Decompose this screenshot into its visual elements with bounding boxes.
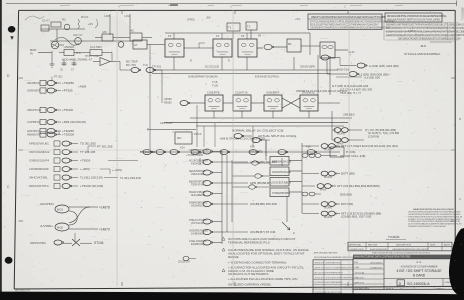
svg-text:K04: K04 — [180, 146, 185, 150]
svg-text:HJ48KDXSXF: HJ48KDXSXF — [350, 249, 365, 251]
svg-text:+PT305: +PT305 — [62, 89, 73, 93]
svg-text:TP B.T. L.NE: TP B.T. L.NE — [85, 55, 99, 58]
svg-text:B93M8R1V68TP698TEUETTA7R4FXA45: B93M8R1V68TP698TEUETTA7R4FXA45EFESX3DUBL… — [386, 24, 464, 27]
svg-text:MC6: MC6 — [57, 226, 63, 230]
svg-text:A5082: A5082 — [164, 101, 172, 105]
svg-text:GLCNJHTT: GLCNJHTT — [315, 282, 326, 284]
svg-text:JY 6 8 JA: JY 6 8 JA — [355, 271, 365, 274]
svg-text:M400: M400 — [320, 189, 327, 192]
svg-text:H.T (D6) I4,I6,G10,G06,G04: H.T (D6) I4,I6,G10,G06,G04 — [332, 84, 369, 88]
svg-text:M55XCTGN4FHPC: M55XCTGN4FHPC — [326, 268, 344, 270]
svg-text:J-306: J-306 — [104, 16, 110, 18]
svg-text:ST246: ST246 — [94, 241, 104, 245]
svg-text:R: R — [228, 59, 230, 63]
svg-text:6SE9SFA593K62: 6SE9SFA593K62 — [326, 262, 342, 265]
svg-text:KPEUDVKU61: KPEUDVKU61 — [29, 142, 49, 146]
svg-text:B OARD: B OARD — [413, 274, 426, 278]
svg-text:MC400: MC400 — [337, 133, 346, 136]
svg-text:TL8: TL8 — [143, 63, 148, 67]
svg-text:SCALE: SCALE — [386, 287, 394, 290]
svg-text:MC: MC — [177, 136, 182, 140]
svg-text:0TJ8D2MHS88S: 0TJ8D2MHS88S — [272, 192, 290, 195]
svg-text:H05D0RBDAS86H: H05D0RBDAS86H — [326, 281, 343, 284]
svg-text:RXJ441AD: RXJ441AD — [343, 286, 353, 289]
svg-text:GBCPPCH: GBCPPCH — [27, 108, 41, 112]
svg-text:MC6: MC6 — [57, 208, 63, 212]
svg-text:FHHEK89V: FHHEK89V — [343, 277, 354, 279]
svg-text:J-310: J-310 — [124, 16, 130, 18]
svg-text:8HSP91BXE9NB: 8HSP91BXE9NB — [370, 249, 387, 251]
svg-text:TP-301: TP-301 — [152, 65, 162, 69]
svg-text:3RBK13N6MLRFDACJCMP8DU4GNM46K6: 3RBK13N6MLRFDACJCMP8DU4GNM46K65PCB2SGMU9 — [372, 252, 431, 255]
svg-text:2N2904: 2N2904 — [65, 45, 75, 49]
svg-text:R.A: R.A — [76, 51, 81, 55]
svg-text:TE9T4TV6: TE9T4TV6 — [191, 183, 204, 187]
svg-text:ED3L3JS62FTAGTME2U9A4TK07C27JT: ED3L3JS62FTAGTME2U9A4TK07C27JTM9FM4HUU4T… — [310, 24, 379, 27]
svg-text:TERMINAL REFERENCE P/LS: TERMINAL REFERENCE P/LS — [228, 241, 270, 245]
svg-text:P3: P3 — [168, 34, 172, 38]
svg-text:ADJ PLNT: ADJ PLNT — [160, 121, 173, 125]
svg-text:T1: T1 — [228, 26, 232, 30]
svg-text:A7: A7 — [134, 43, 138, 47]
svg-text:T.C8: T.C8 — [212, 80, 218, 84]
svg-text:AKRC6TRJNG99: AKRC6TRJNG99 — [272, 171, 291, 174]
svg-text:(C6,B9,B7) ST 246: (C6,B9,B7) ST 246 — [250, 230, 276, 234]
svg-text:+A888: +A888 — [78, 85, 87, 89]
svg-text:B: B — [459, 117, 461, 121]
svg-text:(C6,B9,B8) 305-308: (C6,B9,B8) 305-308 — [250, 202, 277, 206]
svg-text:LEN0BC6: LEN0BC6 — [27, 81, 40, 85]
svg-text:6R9MB8KH: 6R9MB8KH — [315, 287, 326, 289]
svg-text:FEB 4 76: FEB 4 76 — [355, 277, 365, 279]
svg-text:NAFAS1RNK3EPMNLD6LAL4L6ND9G2A8: NAFAS1RNK3EPMNLD6LAL4L6ND9G2A83K — [413, 208, 455, 211]
svg-text:CUPB6VD: CUPB6VD — [27, 120, 40, 124]
svg-text:+T30256: +T30256 — [62, 81, 74, 85]
svg-text:K08: K08 — [306, 145, 311, 149]
svg-text:B2: B2 — [288, 42, 292, 46]
svg-text:DESCRIPTION: DESCRIPTION — [396, 244, 411, 246]
svg-text:2R4N5J9P: 2R4N5J9P — [315, 263, 325, 265]
svg-text:874715UNNNNDS0NBGCGRFDLXBDAVEU: 874715UNNNNDS0NBGCGRFDLXBDAVEUDMXAC7GXNE… — [310, 21, 395, 24]
svg-text:J06: J06 — [206, 16, 211, 20]
svg-text:CHK: CHK — [355, 267, 360, 269]
svg-text:XH2KBRFF: XH2KBRFF — [266, 91, 280, 95]
svg-text:+ ALLOCATED PLD ALLOCATE/S NAM: + ALLOCATED PLD ALLOCATE/S NAME TIPS, D/… — [228, 277, 297, 281]
svg-text:FDVV0GMDU2: FDVV0GMDU2 — [29, 150, 50, 154]
svg-text:9MEUUEAA530DT39EP7G67GAJGKTH4V: 9MEUUEAA530DT39EP7G67GAJGKTH4VLJUP6E — [387, 19, 440, 22]
svg-text:+T5C08: +T5C08 — [62, 108, 73, 112]
svg-text:APR (B9,B8,B7): APR (B9,B8,B7) — [250, 181, 272, 185]
svg-text:MC 709: MC 709 — [126, 63, 136, 67]
svg-text:SUPL: SUPL — [430, 244, 436, 246]
svg-text:REF DES ADD REF DES: REF DES ADD REF DES — [314, 251, 338, 254]
svg-text:ATT (C9,B11,B01,B04,B05,B06): ATT (C9,B11,B01,B04,B05,B06) — [337, 184, 380, 188]
svg-text:R: R — [190, 59, 192, 63]
svg-text:MC: MC — [103, 30, 107, 34]
svg-text:A I L: A I L — [416, 260, 422, 264]
svg-text:24HCVKTS8L: 24HCVKTS8L — [29, 176, 48, 180]
svg-text:ON THE ORIG: ON THE ORIG — [355, 288, 370, 290]
svg-text:J-305 G: J-305 G — [408, 31, 416, 33]
svg-text:K06: K06 — [250, 145, 255, 149]
svg-text:SO-169026-A: SO-169026-A — [407, 282, 430, 286]
svg-text:LRV9RMKH5F: LRV9RMKH5F — [29, 167, 49, 171]
svg-text:C038JPFB: C038JPFB — [207, 91, 220, 95]
svg-text:DR: DR — [355, 262, 359, 264]
svg-text:RRR4D8UGKC9S: RRR4D8UGKC9S — [272, 160, 292, 163]
svg-text:4 BIT / DS SHIFT STORAGE: 4 BIT / DS SHIFT STORAGE — [396, 269, 442, 273]
svg-text:GAXEPB2BFNR828L3DC9FLGF09T: GAXEPB2BFNR828L3DC9FLGF09T — [392, 248, 429, 251]
svg-text:MC: MC — [130, 29, 134, 33]
svg-text:+-(309): +-(309) — [80, 167, 90, 171]
svg-text:LE9SPB1C: LE9SPB1C — [40, 202, 54, 206]
svg-text:R2: R2 — [62, 18, 66, 22]
svg-text:0BSUULFP: 0BSUULFP — [343, 268, 354, 270]
svg-text:PT 301,305: PT 301,305 — [97, 145, 113, 149]
svg-text:-5909 G(H): -5909 G(H) — [336, 68, 350, 72]
svg-text:DBGX6VG9CMT7F: DBGX6VG9CMT7F — [326, 287, 344, 289]
svg-text:TD 301,305: TD 301,305 — [80, 142, 96, 146]
svg-text:6CJS21CB: 6CJS21CB — [205, 65, 219, 69]
svg-text:A: A — [459, 197, 461, 201]
svg-text:NBHBU7E: NBHBU7E — [27, 133, 40, 137]
svg-text:(C9,B5) B01, G07 G03: (C9,B5) B01, G07 G03 — [341, 215, 372, 219]
svg-text:DTRUA489CRLXTXTG2JRTU5STH2T889: DTRUA489CRLXTXTG2JRTU5STH2T889J9U8G6REPD… — [386, 27, 464, 30]
svg-text:PT 301: PT 301 — [54, 75, 63, 79]
svg-text:MC400: MC400 — [324, 207, 333, 210]
svg-text:+T5C08 (30,C06): +T5C08 (30,C06) — [80, 184, 103, 188]
svg-text:8DCJXCGD: 8DCJXCGD — [315, 272, 326, 274]
svg-text:32K0V16RK: 32K0V16RK — [300, 65, 316, 69]
svg-text:A5082: A5082 — [164, 97, 172, 101]
svg-text:UN BACKS CUT NETWORKS: UN BACKS CUT NETWORKS — [228, 272, 268, 276]
svg-text:3RKXCDTPF4: 3RKXCDTPF4 — [29, 184, 49, 188]
svg-text:4EXHL7LR: 4EXHL7LR — [315, 268, 326, 270]
svg-text:G5H6N35HGTSM3AA5JSJG2XMR593MMC: G5H6N35HGTSM3AA5JSJG2XMR593MMCHDHSGLGSX8… — [310, 27, 390, 30]
svg-text:9N524GS8FP50LC53NRN3C3FFEAEV8R: 9N524GS8FP50LC53NRN3C3FFEAEV8R50EX6XS1 — [387, 15, 447, 18]
svg-text:UNTILIZED OVERRUN ORD/EL: UNTILIZED OVERRUN ORD/EL — [228, 282, 272, 286]
svg-text:NEXT AS: NEXT AS — [368, 243, 378, 246]
svg-text:6KKJVJMJ3JGRH: 6KKJVJMJ3JGRH — [326, 277, 343, 279]
svg-text:(TRD): (TRD) — [187, 18, 195, 22]
svg-text:IN: IN — [30, 52, 33, 56]
svg-text:P4: P4 — [216, 34, 220, 38]
svg-text:A DIVISION OF CUTLER-HAMMER: A DIVISION OF CUTLER-HAMMER — [401, 265, 438, 268]
svg-text:D07? (B9): D07? (B9) — [341, 172, 355, 176]
svg-text:D05 (B9): D05 (B9) — [340, 193, 352, 197]
svg-text:APPROVAL: APPROVAL — [350, 243, 362, 246]
svg-text:MANUFACTURING DATA CONTINUATIO: MANUFACTURING DATA CONTINUATION FOR ORD — [354, 256, 411, 259]
svg-text:MC400: MC400 — [324, 216, 333, 219]
svg-text:+T30206: +T30206 — [62, 133, 74, 137]
svg-text:J3-6: J3-6 — [420, 44, 426, 48]
svg-text:PL/C6: PL/C6 — [194, 132, 202, 136]
svg-text:AUTH: AUTH — [444, 243, 450, 246]
svg-text:C16N7T1K: C16N7T1K — [235, 91, 248, 95]
svg-text:E3HNN97SCFRNU: E3HNN97SCFRNU — [255, 75, 279, 79]
svg-text:NORMAL DELAY LN, COLLECT (C6): NORMAL DELAY LN, COLLECT (C6) — [232, 129, 283, 133]
svg-text:+14879: +14879 — [99, 228, 110, 232]
svg-text:PS2RFHEPRX81H: PS2RFHEPRX81H — [326, 272, 344, 274]
svg-text:UDMVB9T: UDMVB9T — [27, 89, 41, 93]
svg-text:MC400: MC400 — [324, 176, 333, 179]
svg-text:TL (311,318,319): TL (311,318,319) — [80, 176, 103, 180]
svg-text:(D) A08 COLL (H8): (D) A08 COLL (H8) — [340, 154, 365, 158]
svg-text:3SEK3X0E: 3SEK3X0E — [191, 172, 204, 176]
svg-text:TB.N (B9) IT, I, IT: TB.N (B9) IT, I, IT — [340, 91, 361, 95]
svg-text:(C7,C9) I 4,6 B(T) 301-305: (C7,C9) I 4,6 B(T) 301-305 — [340, 88, 372, 92]
svg-text:CVBXGS1UP4: CVBXGS1UP4 — [29, 159, 49, 163]
svg-text:P5: P5 — [241, 34, 245, 38]
svg-text:T2: T2 — [247, 25, 251, 29]
svg-text:+ IS DETACHED CONNECTOR TERMIN: + IS DETACHED CONNECTOR TERMINAL — [228, 260, 287, 264]
svg-text:2MXSV5RC: 2MXSV5RC — [30, 241, 47, 245]
svg-text:TL 311,318,319: TL 311,318,319 — [120, 176, 141, 180]
svg-text:+6V: +6V — [88, 22, 93, 26]
svg-text:EASBSJ1D: EASBSJ1D — [191, 242, 204, 246]
svg-text:2G1SK2TK: 2G1SK2TK — [178, 261, 190, 264]
svg-text:D: D — [399, 282, 402, 286]
svg-text:C4 L7004: C4 L7004 — [90, 45, 102, 49]
svg-text:EJ8ERH3DN8SF16HF2PTNLPGMLC3MAL: EJ8ERH3DN8SF16HF2PTNLPGMLC3MALURR2ANLTXK… — [386, 31, 464, 34]
svg-text:J4E6P7916JNEU9TVS2LCJB52FP8CJA: J4E6P7916JNEU9TVS2LCJB52FP8CJA0C5JCX7HCJ… — [386, 34, 464, 37]
svg-text:APR 8 76: APR 8 76 — [355, 281, 365, 284]
svg-text:GCVCE3TJMEX6: GCVCE3TJMEX6 — [272, 181, 292, 184]
svg-text:TL05: TL05 — [212, 84, 218, 88]
svg-text:C1 4.7: C1 4.7 — [42, 19, 50, 23]
svg-text:NTK2GHLG68230ENMB6EA: NTK2GHLG68230ENMB6EA — [404, 52, 440, 56]
svg-text:UNALLOCATED FOR OPTIONAL BODY: UNALLOCATED FOR OPTIONAL BODY TOTALS UP … — [228, 251, 305, 255]
svg-text:+T9026: +T9026 — [80, 159, 91, 163]
svg-text:LMJLXBJ322: LMJLXBJ322 — [370, 262, 383, 264]
svg-text:+5V: +5V — [295, 17, 300, 21]
svg-text:4UV586LL: 4UV586LL — [40, 224, 54, 228]
svg-text:1K4BX00G: 1K4BX00G — [191, 232, 204, 236]
svg-text:(C9,P09): (C9,P09) — [368, 135, 379, 139]
svg-text:+L6 (D6) G06: +L6 (D6) G06 — [364, 76, 380, 80]
svg-text:SJT0GHT4: SJT0GHT4 — [191, 151, 205, 155]
svg-text:3U7414D4: 3U7414D4 — [315, 277, 325, 279]
svg-text:+14878: +14878 — [99, 206, 110, 210]
svg-text:A04 B (TRO36-1,CN,C34,E34 F30): A04 B (TRO36-1,CN,C34,E34 F30) — [220, 137, 265, 141]
svg-text:R4 1K: R4 1K — [81, 15, 89, 19]
svg-text:MOD: MOD — [30, 48, 36, 52]
svg-text:P9MHSB2L2PM1NGA5K37TCGSGK46GHR: P9MHSB2L2PM1NGA5K37TCGSGK46GHR — [408, 225, 446, 228]
svg-text:C4L7 CT: C4L7 CT — [73, 34, 83, 37]
svg-text:SHEET 1: SHEET 1 — [436, 288, 446, 290]
svg-text:+R06 (30,C06,06): +R06 (30,C06,06) — [62, 120, 86, 124]
